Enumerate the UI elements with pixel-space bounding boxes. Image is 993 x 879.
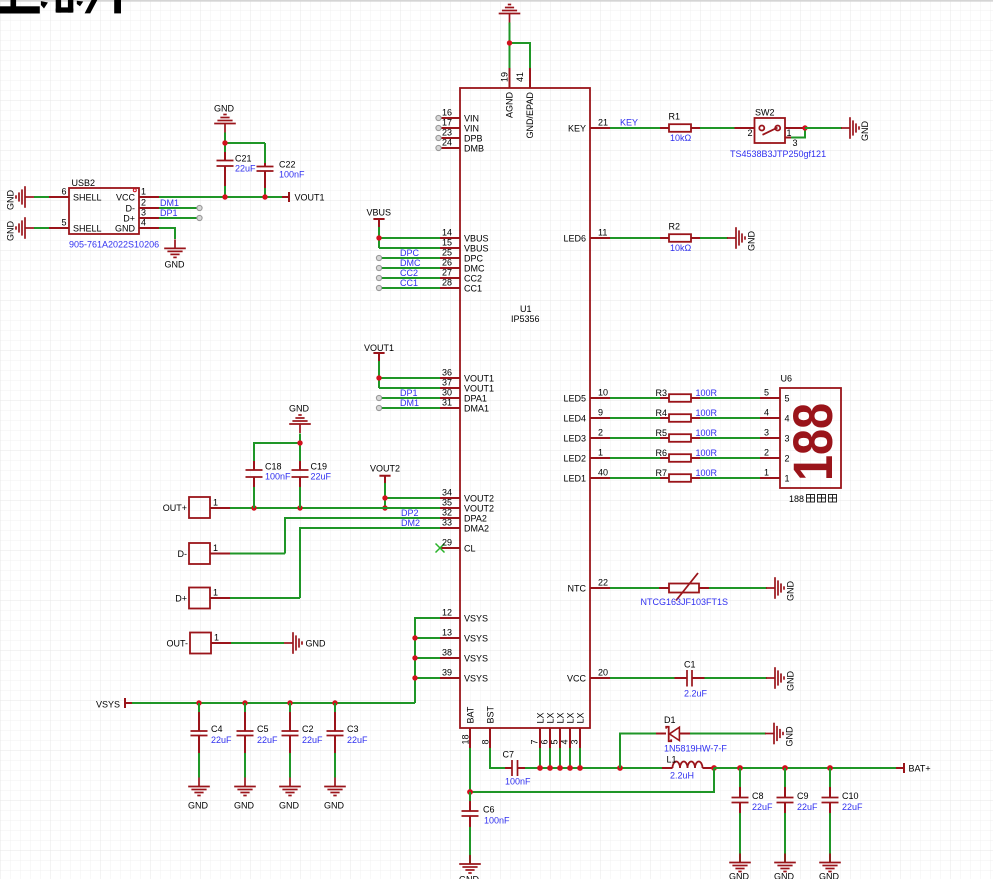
SW2 pin 1 (785, 127, 805, 129)
svg-text:100R: 100R (696, 448, 718, 458)
svg-text:D-: D- (126, 204, 136, 214)
svg-text:1: 1 (214, 633, 219, 643)
svg-text:R7: R7 (655, 468, 667, 478)
svg-text:SHELL: SHELL (73, 224, 102, 234)
svg-text:C4: C4 (211, 724, 223, 734)
IC U1 IP5356 body (460, 88, 590, 728)
node junction C19 top (297, 440, 302, 445)
svg-text:2.2uF: 2.2uF (684, 689, 708, 699)
svg-text:VOUT1: VOUT1 (464, 374, 494, 384)
pin 19 AGND (509, 68, 511, 88)
svg-text:34: 34 (442, 488, 452, 498)
svg-text:3: 3 (141, 208, 146, 218)
pin 14 VBUS (440, 237, 460, 239)
pin 26 DMC with wire (440, 267, 460, 269)
svg-text:DM2: DM2 (401, 518, 420, 528)
svg-text:GND: GND (324, 801, 345, 811)
svg-text:VOUT2: VOUT2 (464, 504, 494, 514)
pin 36 VOUT1 (440, 377, 460, 379)
svg-text:VCC: VCC (116, 193, 136, 203)
net flag BAT+ (896, 763, 904, 773)
resistor R1 10k (660, 127, 700, 129)
U6 pin 2 (760, 457, 780, 459)
pin 41 GND/EPAD (529, 68, 531, 88)
svg-text:4: 4 (560, 739, 570, 744)
thermistor NTC NTCG163JF103FT1S (659, 587, 709, 589)
node junction C19 tap (297, 505, 302, 510)
svg-text:28: 28 (442, 278, 452, 288)
svg-text:22uF: 22uF (235, 164, 256, 174)
svg-text:5: 5 (550, 739, 560, 744)
svg-text:LED6: LED6 (563, 234, 586, 244)
connector D- P2 (189, 543, 210, 564)
svg-text:CC2: CC2 (464, 274, 482, 284)
node junction C22 bottom (262, 194, 267, 199)
svg-text:GND: GND (747, 231, 757, 252)
svg-text:BAT+: BAT+ (909, 764, 931, 774)
svg-text:VIN: VIN (464, 124, 479, 134)
diode D1 1N5819HW-7-F (656, 733, 690, 735)
svg-text:22uF: 22uF (842, 802, 863, 812)
svg-text:3: 3 (793, 138, 798, 148)
svg-text:2: 2 (598, 428, 603, 438)
svg-text:1: 1 (213, 588, 218, 598)
SW2 pin 3 (785, 137, 791, 139)
wire LED1 row (610, 477, 760, 479)
svg-text:23: 23 (442, 128, 452, 138)
svg-text:GND: GND (459, 875, 480, 879)
svg-text:10kΩ: 10kΩ (670, 243, 692, 253)
svg-text:4: 4 (141, 218, 146, 228)
svg-text:C18: C18 (265, 462, 282, 472)
ground (below C5) (234, 778, 256, 796)
ground (below C4) (188, 778, 210, 796)
connector D+ P3 (189, 588, 210, 609)
svg-text:DMA1: DMA1 (464, 404, 489, 414)
svg-text:VSYS: VSYS (464, 654, 488, 664)
ground (below C6) (459, 855, 481, 873)
wire OUT+ to pin35 rail (230, 507, 440, 509)
U6 pin 4 (760, 417, 780, 419)
svg-text:22uF: 22uF (257, 735, 278, 745)
svg-text:VBUS: VBUS (464, 234, 489, 244)
pin 31 DMA1 with wire (440, 407, 460, 409)
svg-text:1: 1 (141, 187, 146, 197)
svg-text:DP1: DP1 (400, 388, 418, 398)
svg-text:VIN: VIN (464, 114, 479, 124)
capacitor C2 (289, 703, 291, 778)
svg-text:100R: 100R (696, 408, 718, 418)
svg-text:22uF: 22uF (752, 802, 773, 812)
pin 11 LED6 (590, 237, 610, 239)
node junction at top gnd (507, 40, 512, 45)
U1 left pins group1: 16 VIN (440, 117, 460, 119)
svg-text:DMB: DMB (464, 144, 484, 154)
svg-text:14: 14 (442, 228, 452, 238)
svg-text:LX: LX (555, 712, 565, 723)
svg-text:LED2: LED2 (563, 454, 586, 464)
pin 2 LED3 (590, 437, 610, 439)
svg-text:R3: R3 (655, 388, 667, 398)
svg-text:24: 24 (442, 138, 452, 148)
svg-text:3: 3 (764, 428, 769, 438)
svg-text:1: 1 (764, 468, 769, 478)
switch SW2 body (755, 118, 786, 143)
svg-text:VOUT1: VOUT1 (295, 193, 325, 203)
pin 1 LED2 (590, 457, 610, 459)
svg-text:DPC: DPC (400, 248, 420, 258)
svg-text:USB2: USB2 (72, 178, 96, 188)
ground (below C8) (729, 854, 751, 872)
svg-text:C22: C22 (279, 160, 296, 170)
svg-text:D1: D1 (664, 715, 676, 725)
capacitor C9 (784, 768, 786, 863)
svg-text:3: 3 (570, 739, 580, 744)
svg-text:GND: GND (786, 581, 796, 602)
svg-text:22uF: 22uF (302, 735, 323, 745)
resistor R6 100R (660, 457, 700, 459)
svg-text:100nF: 100nF (279, 170, 305, 180)
inductor L1 2.2uH (662, 767, 714, 769)
svg-text:C8: C8 (752, 791, 764, 801)
svg-text:22uF: 22uF (797, 802, 818, 812)
svg-text:LX: LX (535, 712, 545, 723)
svg-text:OUT+: OUT+ (163, 503, 187, 513)
svg-text:OUT-: OUT- (167, 639, 189, 649)
svg-text:KEY: KEY (568, 124, 586, 134)
svg-text:100nF: 100nF (505, 777, 531, 787)
svg-text:DPB: DPB (464, 134, 483, 144)
svg-text:33: 33 (442, 518, 452, 528)
svg-text:LX: LX (545, 712, 555, 723)
node junctions C8/C9/C10 (737, 765, 743, 771)
svg-text:BAT: BAT (465, 706, 475, 723)
svg-text:NTC: NTC (568, 584, 587, 594)
svg-text:10kΩ: 10kΩ (670, 133, 692, 143)
svg-text:CC2: CC2 (400, 268, 418, 278)
svg-text:2: 2 (747, 128, 752, 138)
svg-text:R2: R2 (669, 222, 681, 232)
svg-text:2: 2 (141, 198, 146, 208)
svg-text:C9: C9 (797, 791, 809, 801)
svg-text:D-: D- (178, 549, 188, 559)
USB connector USB2 body (69, 188, 139, 234)
svg-text:C6: C6 (483, 805, 495, 815)
svg-text:C2: C2 (302, 724, 314, 734)
wire DM1 from pin 2 (159, 207, 199, 209)
ground (below USB2 pin 4) (164, 239, 186, 257)
node junction C18 tap (251, 505, 256, 510)
wire VOUT1 to pins 36/37 (379, 361, 440, 388)
wire D1 to gnd (690, 733, 766, 735)
wire D+ to DM2 column (230, 597, 300, 599)
wire LED3 row (610, 437, 760, 439)
USB2 pin 4 GND (139, 227, 159, 229)
capacitor C22 (264, 163, 266, 190)
capacitor C1 2.2uF (675, 677, 705, 679)
U6 pin 1 (760, 477, 780, 479)
svg-text:GND: GND (860, 121, 870, 142)
svg-text:C21: C21 (235, 154, 252, 164)
U1 bottom pin 18 BAT (469, 728, 471, 748)
ground (right of C1) (766, 667, 784, 689)
svg-text:5: 5 (61, 218, 66, 228)
svg-text:LED1: LED1 (563, 474, 586, 484)
svg-text:30: 30 (442, 388, 452, 398)
svg-text:1: 1 (213, 498, 218, 508)
node junction D1 tap (617, 765, 623, 771)
svg-text:8: 8 (481, 739, 491, 744)
svg-text:GND: GND (165, 260, 186, 270)
svg-text:GND: GND (279, 801, 300, 811)
USB2 pin 6 SHELL (49, 196, 69, 198)
pin 15 VBUS (440, 247, 460, 249)
U1 bottom pin 3 LX (579, 728, 581, 748)
wire VCC rail to VOUT1 flag (159, 196, 282, 198)
svg-text:L1: L1 (667, 755, 677, 765)
resistor R2 10k (660, 237, 700, 239)
svg-text:100nF: 100nF (265, 472, 291, 482)
resistor R4 100R (660, 417, 700, 419)
svg-text:GND: GND (786, 671, 796, 692)
pin 37 VOUT1 (440, 387, 460, 389)
svg-text:R5: R5 (655, 428, 667, 438)
svg-text:3: 3 (785, 434, 790, 444)
U1 bottom pin 7 LX (539, 728, 541, 748)
node junction BAT/C6 (467, 789, 473, 795)
svg-text:188: 188 (789, 494, 804, 504)
svg-text:4: 4 (764, 408, 769, 418)
wire OUT- to gnd (231, 642, 284, 644)
wire pin4 to gnd (159, 228, 175, 239)
svg-text:LX: LX (565, 712, 575, 723)
pin 23 DPB (440, 137, 460, 139)
wire KEY net (610, 127, 660, 129)
svg-text:2: 2 (785, 454, 790, 464)
svg-text:2: 2 (764, 448, 769, 458)
U1 bottom pin 5 LX (559, 728, 561, 748)
U1 bottom pin 8 BST (489, 728, 491, 748)
wire BAT pin down (469, 748, 471, 792)
USB2 pin 2 D- (139, 207, 159, 209)
svg-text:GND: GND (819, 872, 840, 879)
svg-text:SHELL: SHELL (73, 193, 102, 203)
svg-text:GND: GND (306, 639, 327, 649)
svg-text:29: 29 (442, 538, 452, 548)
svg-text:DMA2: DMA2 (464, 524, 489, 534)
pin 33 DMA2 with wire to D+ (440, 527, 460, 529)
wire VCC row (610, 677, 767, 679)
wire D- to DP2 column (230, 553, 285, 555)
svg-text:20: 20 (598, 668, 608, 678)
pin 22 NTC (590, 587, 610, 589)
pin 25 DPC with wire (440, 257, 460, 259)
ground (top, above U1) (499, 5, 521, 23)
svg-text:C5: C5 (257, 724, 269, 734)
svg-text:DP1: DP1 (160, 208, 178, 218)
pin 17 VIN (440, 127, 460, 129)
svg-text:VBUS: VBUS (464, 244, 489, 254)
node junctions LX (537, 765, 543, 771)
wire LX rail (525, 767, 662, 769)
capacitor C6 (469, 792, 471, 864)
svg-text:9: 9 (598, 408, 603, 418)
svg-text:100R: 100R (696, 468, 718, 478)
pin 28 CC1 with wire (440, 287, 460, 289)
ground (below C9) (774, 854, 796, 872)
svg-text:5: 5 (764, 388, 769, 398)
svg-text:VOUT1: VOUT1 (464, 384, 494, 394)
U1 bottom pin 4 LX (569, 728, 571, 748)
resistor R3 100R (660, 397, 700, 399)
wire VSYS rail (132, 702, 415, 704)
svg-text:AGND: AGND (505, 91, 515, 118)
svg-text:DP2: DP2 (401, 508, 419, 518)
pin 13 VSYS (440, 637, 460, 639)
pin 20 VCC (590, 677, 610, 679)
USB2 pin 3 D+ (139, 217, 159, 219)
svg-text:DM1: DM1 (400, 398, 419, 408)
pin 10 LED5 (590, 397, 610, 399)
svg-text:VBUS: VBUS (367, 208, 392, 218)
wire shell6 to gnd (34, 196, 49, 198)
wire VBUS to pins 14/15 (379, 227, 440, 248)
wire LX pins down (540, 748, 580, 768)
svg-text:LED5: LED5 (563, 394, 586, 404)
svg-text:6: 6 (540, 739, 550, 744)
node VOUT1 junction (376, 375, 381, 380)
svg-text:1: 1 (785, 474, 790, 484)
capacitor C5 (244, 703, 246, 778)
capacitor C3 (334, 703, 336, 778)
capacitor C18 (253, 460, 255, 487)
svg-text:CC1: CC1 (464, 284, 482, 294)
ground (left of USB2 pin 6) (16, 186, 34, 208)
svg-text:DM1: DM1 (160, 198, 179, 208)
wire VOUT2 to pins 34/35 (385, 483, 440, 508)
svg-text:22: 22 (598, 578, 608, 588)
svg-text:31: 31 (442, 398, 452, 408)
ground (above C19) (289, 415, 311, 433)
svg-text:100R: 100R (696, 428, 718, 438)
svg-text:12: 12 (442, 608, 452, 618)
wire VSYS bus to rail (415, 618, 440, 703)
ground (below C10) (819, 854, 841, 872)
node junction SW2 (802, 125, 807, 130)
node junction L1 out (711, 765, 717, 771)
svg-text:LX: LX (575, 712, 585, 723)
svg-text:D+: D+ (175, 594, 187, 604)
svg-text:SW2: SW2 (755, 108, 775, 118)
svg-text:GND: GND (188, 801, 209, 811)
pin 27 CC2 with wire (440, 277, 460, 279)
svg-text:GND: GND (214, 104, 235, 114)
svg-text:CC1: CC1 (400, 278, 418, 288)
resistor R5 100R (660, 437, 700, 439)
svg-text:22uF: 22uF (347, 735, 368, 745)
wire C18/C19 tops rail (254, 434, 300, 509)
svg-text:VSYS: VSYS (464, 634, 488, 644)
capacitor C19 (299, 460, 301, 487)
pin 38 VSYS (440, 657, 460, 659)
pin 30 DPA1 with wire (440, 397, 460, 399)
svg-text:DMC: DMC (464, 264, 485, 274)
svg-text:VCC: VCC (567, 674, 587, 684)
svg-text:C19: C19 (311, 462, 328, 472)
svg-text:VSYS: VSYS (464, 674, 488, 684)
pin 12 VSYS (440, 617, 460, 619)
svg-text:2.2uH: 2.2uH (670, 771, 694, 781)
USB2 pin 1 VCC (139, 196, 159, 198)
U6 pin 3 (760, 437, 780, 439)
node junctions VSYS caps (196, 700, 201, 705)
svg-text:IP5356: IP5356 (511, 314, 540, 324)
wire pin3 to pin1 node (791, 128, 805, 138)
svg-text:21: 21 (598, 118, 608, 128)
wire gnd to C21/C22 tops (225, 133, 265, 164)
wire LED6 row (610, 237, 728, 239)
SW2 pin 2 (735, 127, 755, 129)
svg-text:11: 11 (598, 228, 607, 238)
wire BAT bottom link (470, 768, 714, 792)
svg-text:VOUT2: VOUT2 (464, 494, 494, 504)
node VSYS bus junctions (412, 635, 417, 640)
svg-text:GND: GND (785, 726, 795, 747)
svg-text:25: 25 (442, 248, 452, 258)
svg-text:41: 41 (515, 72, 525, 82)
svg-text:C1: C1 (684, 660, 696, 670)
svg-text:10: 10 (598, 388, 608, 398)
U1 right pins: pin 21 KEY (590, 127, 610, 129)
svg-text:BST: BST (485, 705, 495, 723)
svg-text:TS4538B3JTP250gf121: TS4538B3JTP250gf121 (730, 149, 826, 159)
wire C21/C22 bottoms to VCC rail (225, 186, 265, 197)
wire DP1 from pin 3 (159, 217, 199, 219)
svg-text:GND: GND (6, 190, 16, 211)
capacitor C4 (198, 703, 200, 778)
capacitor C8 (739, 768, 741, 863)
svg-text:C3: C3 (347, 724, 359, 734)
svg-text:4: 4 (785, 414, 790, 424)
wire NTC row (610, 587, 767, 589)
ground (right of OUT-) (284, 632, 302, 654)
svg-text:GND/EPAD: GND/EPAD (525, 92, 535, 139)
capacitor C10 (829, 768, 831, 863)
svg-text:40: 40 (598, 468, 608, 478)
svg-text:VSYS: VSYS (464, 614, 488, 624)
ground (left of USB2 pin 5) (16, 217, 34, 239)
svg-text:22uF: 22uF (311, 472, 332, 482)
ground (below C3) (324, 778, 346, 796)
ground (below C2) (279, 778, 301, 796)
svg-text:LED4: LED4 (563, 414, 586, 424)
svg-text:19: 19 (500, 72, 510, 82)
svg-text:DPC: DPC (464, 254, 484, 264)
svg-text:GND: GND (289, 404, 310, 414)
svg-text:VOUT1: VOUT1 (364, 343, 394, 353)
svg-text:15: 15 (442, 238, 452, 248)
svg-text:13: 13 (442, 628, 452, 638)
svg-text:6: 6 (61, 187, 66, 197)
connector OUT+ P1 (189, 497, 210, 518)
wire shell5 to gnd (34, 227, 49, 229)
svg-text:GND: GND (774, 872, 795, 879)
svg-text:DPA1: DPA1 (464, 394, 487, 404)
wire SW2 to gnd (805, 127, 842, 129)
capacitor C7 100nF (505, 767, 525, 769)
node VBUS junction (376, 235, 381, 240)
wire BST pin down to C7 (490, 748, 505, 768)
